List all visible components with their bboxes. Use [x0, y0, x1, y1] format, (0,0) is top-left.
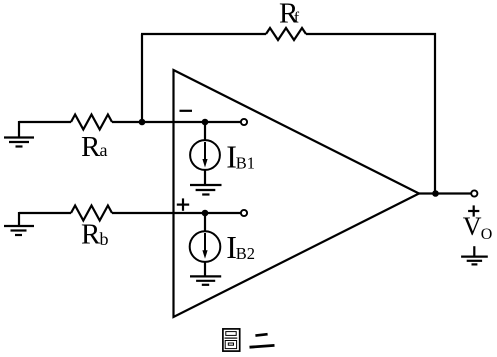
resistor Rb — [71, 206, 112, 221]
ground below Vo — [461, 246, 488, 264]
label Ra — [81, 131, 108, 163]
ground below IB1 — [190, 185, 222, 195]
wire node to IB1 — [204, 122, 206, 141]
terminal open circle output — [471, 190, 477, 196]
wire feedback top horizontal left of Rf — [141, 33, 266, 35]
svg-text:R: R — [81, 219, 101, 251]
resistor Rf — [266, 28, 306, 40]
current source IB2 — [190, 231, 221, 262]
wire op-amp output to terminal — [419, 192, 471, 194]
label IB1 — [226, 139, 255, 175]
wire inverting input into op-amp — [142, 121, 241, 123]
svg-text:O: O — [481, 226, 493, 243]
terminal open circle non-inverting input — [241, 210, 247, 216]
wire feedback left vertical from inverting-input node up — [141, 34, 143, 122]
svg-text:f: f — [294, 9, 300, 26]
ground below IB2 — [190, 276, 221, 284]
node junction at IB2 tap — [202, 210, 209, 217]
wire feedback right vertical down to output node — [434, 33, 436, 194]
resistor Ra — [71, 115, 112, 130]
wire IB1 to ground — [204, 170, 206, 185]
wire Rb to non-inverting input — [112, 212, 241, 214]
wire from ground to Rb — [19, 212, 71, 214]
plus sign output polarity — [468, 205, 479, 216]
ground at Ra input — [4, 121, 34, 147]
label Vo — [463, 212, 493, 243]
terminal open circle inverting input — [241, 119, 247, 125]
current source IB1 — [190, 140, 220, 170]
plus sign non-inverting input — [177, 198, 189, 210]
node junction output/feedback — [432, 190, 439, 197]
svg-text:V: V — [463, 212, 482, 241]
wire feedback top horizontal right of Rf — [306, 33, 436, 35]
wire from ground to Ra — [19, 121, 71, 123]
node junction at Ra/feedback — [139, 119, 146, 126]
op-amp U1 — [174, 70, 420, 317]
label IB2 — [226, 229, 255, 265]
wire node to IB2 — [204, 213, 206, 232]
svg-text:a: a — [100, 140, 108, 160]
svg-text:B1: B1 — [236, 154, 255, 173]
label Rf — [279, 0, 300, 30]
label Rb — [81, 219, 109, 251]
caption 圖二 (Figure 2) drawn as strokes — [223, 329, 275, 351]
svg-text:R: R — [81, 131, 101, 163]
svg-text:b: b — [100, 229, 109, 249]
wire Ra to inverting input node — [112, 121, 142, 123]
wire IB2 to ground — [204, 262, 206, 277]
ground at Rb input — [4, 212, 34, 235]
node junction at IB1 tap — [202, 119, 209, 126]
svg-text:B2: B2 — [236, 244, 255, 263]
minus sign inverting input — [180, 110, 193, 112]
